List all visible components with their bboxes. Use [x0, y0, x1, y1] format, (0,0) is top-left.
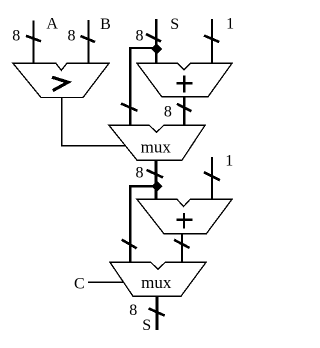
svg-text:C: C	[74, 276, 85, 293]
wire constant 1 input of adder2	[211, 157, 213, 200]
mux M2 shape	[110, 262, 206, 296]
svg-text:A: A	[46, 16, 58, 33]
wire A input	[32, 21, 34, 65]
adder U2 plus symbol	[177, 75, 193, 92]
bus slash left wire above mux2	[122, 240, 137, 249]
svg-text:S: S	[142, 317, 151, 334]
wire mux2 output S	[156, 296, 159, 330]
bus slash on adder2 1 input	[204, 172, 220, 180]
comparator U1 shape	[13, 63, 109, 97]
wire B input	[87, 20, 89, 64]
svg-text:mux: mux	[141, 138, 172, 157]
wire node to adder2 input	[155, 187, 158, 200]
svg-text:8: 8	[12, 28, 20, 45]
comparator greater-than symbol	[52, 77, 68, 90]
bus slash S	[146, 34, 161, 42]
wire feedback from S node to mux1 left input	[130, 48, 156, 126]
svg-text:8: 8	[136, 27, 144, 44]
bus slash on 1 input	[204, 36, 219, 43]
junction dot node S	[151, 43, 162, 54]
svg-text:8: 8	[129, 302, 137, 319]
bus slash mux2 output	[149, 308, 165, 315]
wire adder2 output to mux2	[181, 234, 183, 263]
wire S input	[155, 19, 158, 64]
wire mux1 output	[155, 160, 158, 187]
bus slash B	[81, 36, 96, 42]
bus slash mux1 output	[147, 170, 164, 178]
mux M1 shape	[109, 125, 205, 160]
adder U3 plus symbol	[177, 213, 193, 229]
junction dot node mux1 out	[151, 181, 162, 192]
svg-text:1: 1	[226, 15, 234, 32]
svg-text:mux: mux	[141, 273, 172, 292]
svg-text:S: S	[170, 16, 179, 33]
bus slash A	[26, 36, 41, 42]
wire fork from node down-left to mux2	[130, 186, 157, 262]
wire adder1 output to mux1	[183, 97, 185, 126]
svg-text:8: 8	[164, 103, 172, 120]
wire comparator output to mux1 select	[62, 98, 125, 146]
bus slash adder1 output	[177, 104, 192, 111]
wire constant 1 input of adder1	[211, 19, 213, 64]
svg-text:8: 8	[136, 165, 144, 182]
adder U2 shape	[137, 63, 232, 97]
svg-text:8: 8	[68, 28, 76, 45]
wire C to mux2 select	[88, 281, 124, 283]
svg-text:1: 1	[225, 153, 233, 170]
adder U3 shape	[137, 199, 232, 234]
bus slash feedback wire	[121, 104, 138, 111]
bus slash adder2 output	[174, 240, 190, 248]
svg-text:B: B	[100, 16, 111, 33]
